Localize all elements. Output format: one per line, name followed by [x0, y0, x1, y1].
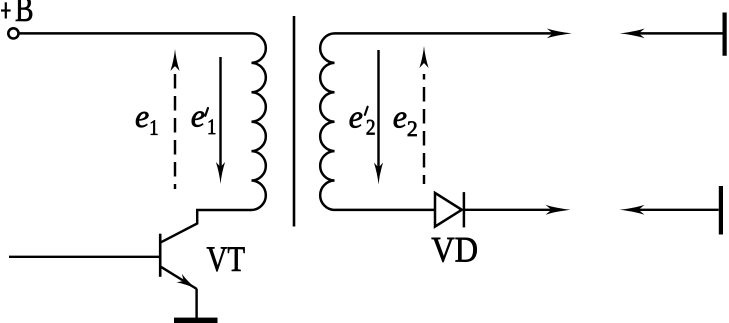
- label +B: [1, 0, 32, 21]
- wire secondary bottom to diode: [335, 209, 436, 211]
- wire diode to output arrow: [464, 209, 552, 211]
- label VT: [207, 247, 245, 271]
- terminal circle +B: [8, 28, 18, 38]
- terminal bar top right: [722, 13, 726, 56]
- arrowhead right bottom output: [546, 205, 571, 215]
- transformer secondary winding: [320, 33, 334, 210]
- terminal bar bottom right: [719, 186, 723, 235]
- transistor VT emitter: [161, 267, 197, 289]
- wire secondary top to output: [335, 32, 554, 34]
- arrowhead left bottom return: [620, 205, 645, 215]
- wire bottom right to terminal bar: [638, 209, 719, 211]
- label e1: [136, 112, 157, 135]
- arrow e1 dashed up: [170, 49, 179, 189]
- diode VD triangle: [435, 193, 462, 227]
- transistor VT base bar: [159, 234, 162, 277]
- label e2: [394, 112, 417, 136]
- arrowhead right top output: [547, 29, 572, 39]
- wire emitter to ground: [195, 289, 197, 318]
- wire base input: [9, 256, 159, 258]
- diode VD cathode bar: [463, 192, 466, 227]
- wire collector to primary winding: [161, 210, 252, 242]
- arrow e2-prime solid down: [374, 50, 383, 185]
- transformer core: [293, 16, 296, 227]
- label e2-prime: [350, 107, 375, 135]
- label e1-prime: [192, 108, 215, 134]
- wire from +B terminal to primary winding: [20, 32, 252, 34]
- ground: [174, 318, 218, 323]
- wire top right to terminal bar: [638, 32, 723, 34]
- arrow e2 dashed up: [419, 46, 428, 184]
- transformer primary winding: [252, 33, 266, 210]
- arrow e1-prime solid down: [216, 57, 225, 184]
- label VD: [432, 238, 477, 262]
- arrowhead left top return: [620, 29, 645, 39]
